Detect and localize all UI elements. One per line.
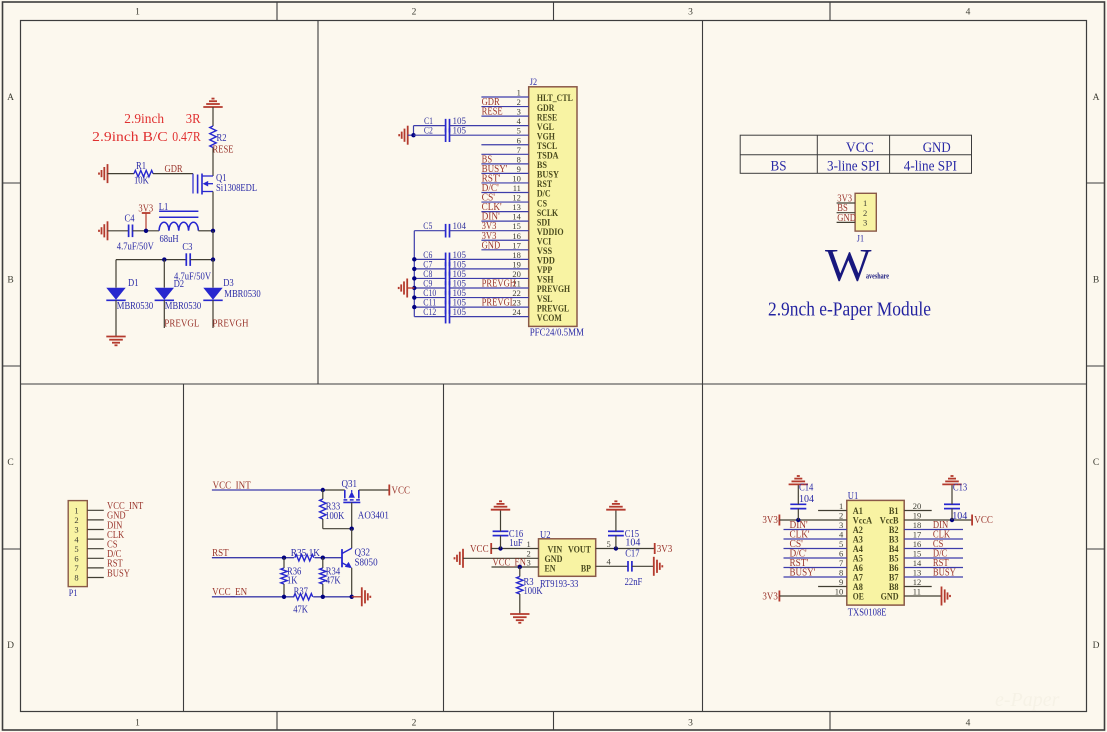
svg-text:C: C bbox=[1093, 458, 1099, 468]
wire J2 pin 11 stub bbox=[481, 192, 528, 194]
wire J2 pin 12 stub bbox=[481, 201, 528, 203]
label C12 bbox=[423, 307, 436, 317]
svg-text:12: 12 bbox=[512, 193, 521, 203]
svg-text:1K: 1K bbox=[287, 576, 298, 587]
value 4.7uF/50V (C3) bbox=[174, 271, 212, 282]
net label BUSY at U1 bbox=[933, 568, 956, 579]
ground (earth, up) above C16 bbox=[491, 501, 510, 509]
wire C17 to ground bbox=[632, 565, 654, 567]
svg-text:4-line SPI: 4-line SPI bbox=[904, 158, 957, 174]
diode D1 bbox=[106, 288, 125, 301]
value 22nF bbox=[625, 577, 643, 588]
svg-text:OE: OE bbox=[853, 592, 864, 603]
wire bus to capacitor C7 bbox=[414, 268, 445, 270]
ground (earth, up) above C15 bbox=[606, 501, 625, 509]
wire C11 to J2 pin 23 bbox=[450, 306, 529, 308]
wire J2 pin 9 stub bbox=[481, 172, 528, 174]
wire C13 to node bbox=[951, 509, 953, 520]
net label RST bbox=[212, 548, 229, 559]
P1 pin numbers 1-8 bbox=[74, 506, 79, 583]
value AO3401 bbox=[358, 511, 389, 522]
power port VCC (Q31) bbox=[389, 485, 410, 497]
wire D1 to ground bbox=[115, 300, 117, 336]
wire ground to R2 bbox=[212, 107, 214, 126]
label P1 bbox=[69, 589, 78, 599]
svg-text:12: 12 bbox=[913, 577, 922, 587]
wire to diode D1 bbox=[115, 260, 117, 288]
net label 3V3 at J1 bbox=[837, 194, 852, 205]
wire J2 pin 17 stub bbox=[481, 249, 528, 251]
wire cap-bank bus vertical bbox=[413, 231, 415, 317]
J1 pin numbers 1-3 bbox=[863, 198, 867, 227]
wire P1 pin 5 stub bbox=[87, 548, 104, 550]
svg-text:1: 1 bbox=[526, 539, 530, 549]
net label BS at J1 bbox=[837, 203, 848, 214]
label C11 bbox=[423, 298, 436, 308]
capacitor C9 bbox=[446, 281, 450, 295]
label R33 bbox=[326, 501, 340, 512]
diode D3 bbox=[203, 288, 222, 301]
wire P1 pin 2 stub bbox=[87, 519, 104, 521]
svg-text:3V3: 3V3 bbox=[657, 544, 673, 555]
net label D/C' at U1 bbox=[790, 549, 807, 560]
label D2 bbox=[174, 279, 185, 290]
wire C8 to J2 pin 20 bbox=[450, 277, 529, 279]
wire Q31 to VCC port bbox=[359, 489, 390, 491]
ground (earth, right) at U1 GND bbox=[942, 587, 951, 606]
junction node emitter/ground bbox=[350, 595, 354, 599]
label J1 bbox=[857, 234, 864, 244]
label R2 bbox=[217, 133, 227, 144]
svg-text:3R: 3R bbox=[186, 112, 201, 127]
value 104 (C5) bbox=[453, 221, 467, 231]
resistor R37 bbox=[294, 594, 313, 600]
svg-text:104: 104 bbox=[952, 511, 967, 522]
resistor R36 bbox=[281, 558, 287, 597]
wire RST bbox=[212, 557, 294, 559]
label Q1 bbox=[216, 173, 227, 184]
svg-text:GND: GND bbox=[923, 140, 951, 156]
wire J2 pin 3 stub bbox=[481, 115, 528, 117]
svg-text:D: D bbox=[1093, 641, 1100, 651]
net label RST' at J2 pin 10 bbox=[482, 173, 501, 184]
wire P1 pin 6 stub bbox=[87, 557, 104, 559]
Waveshare logo W bbox=[825, 240, 872, 292]
junction node C2 bbox=[411, 133, 415, 137]
power port 3V3 (top-left) bbox=[138, 203, 153, 231]
svg-text:105: 105 bbox=[453, 259, 467, 269]
ground (earth, left) at cap bank bbox=[399, 279, 408, 298]
svg-text:VCC: VCC bbox=[470, 544, 489, 555]
svg-text:VCC: VCC bbox=[392, 486, 411, 497]
wire R35 to Q32 base bbox=[315, 557, 343, 559]
junction node RST/R36 bbox=[282, 556, 286, 560]
net label D/C at P1 bbox=[107, 549, 122, 560]
junction node C14 bbox=[796, 518, 800, 522]
junction node C15 bbox=[614, 546, 618, 550]
svg-text:2: 2 bbox=[412, 719, 417, 729]
net label PREVGH bbox=[212, 319, 248, 330]
wire U2 VOUT pin 5 to 3V3 bbox=[596, 548, 655, 550]
wire R37 to emitter node bbox=[313, 596, 352, 598]
svg-text:PFC24/0.5MM: PFC24/0.5MM bbox=[530, 328, 584, 339]
wire C4 to L1 bbox=[133, 230, 160, 232]
wire U1 pin 13 (BUSY) bbox=[904, 576, 963, 578]
svg-text:3: 3 bbox=[863, 218, 867, 228]
wire rail down to C3 node bbox=[212, 231, 214, 260]
svg-text:18: 18 bbox=[913, 520, 922, 530]
label R36 bbox=[287, 566, 301, 577]
svg-text:e-Paper: e-Paper bbox=[995, 689, 1060, 711]
ground (earth, left) at R1 bbox=[99, 164, 108, 183]
wire 3V3 to U1 OE pin 10 bbox=[779, 595, 846, 597]
label C14 bbox=[799, 483, 813, 494]
wire bus to capacitor C8 bbox=[414, 277, 445, 279]
wire bus to capacitor C10 bbox=[414, 297, 445, 299]
net label GDR at J2 pin 2 bbox=[482, 97, 500, 108]
junction node bus pin 21 bbox=[412, 286, 416, 290]
svg-text:P1: P1 bbox=[69, 589, 78, 599]
svg-text:24: 24 bbox=[512, 307, 521, 317]
svg-text:D: D bbox=[7, 641, 14, 651]
wire L1 to main rail bbox=[198, 230, 213, 232]
wire D2 to net PREVGL bbox=[163, 300, 165, 328]
wire Q32 emitter down bbox=[351, 568, 353, 597]
ground (earth, up) above C14 bbox=[789, 476, 808, 484]
net label PREVGH at J2 pin 21 bbox=[482, 279, 516, 290]
svg-text:4: 4 bbox=[966, 8, 971, 18]
svg-text:8: 8 bbox=[74, 573, 78, 583]
wire VCC_INT to Q31 bbox=[323, 489, 345, 491]
value 105 (C8) bbox=[453, 269, 467, 279]
net label BUSY at P1 bbox=[107, 568, 130, 579]
svg-text:7: 7 bbox=[839, 558, 843, 568]
svg-text:6: 6 bbox=[517, 135, 521, 145]
value 100K (R3) bbox=[524, 586, 544, 597]
label C9 bbox=[423, 279, 432, 289]
svg-text:17: 17 bbox=[913, 530, 922, 540]
svg-text:105: 105 bbox=[453, 298, 467, 308]
svg-text:5: 5 bbox=[517, 126, 521, 136]
svg-text:L1: L1 bbox=[159, 202, 169, 213]
wire U1 pin 7 (RST') bbox=[784, 567, 847, 569]
svg-text:13: 13 bbox=[512, 202, 521, 212]
connector J2 body bbox=[529, 87, 577, 327]
junction node C16 bbox=[498, 546, 502, 550]
wire U2 BP pin 4 to C17 bbox=[596, 565, 628, 567]
U1 pin numbers bbox=[835, 501, 922, 597]
svg-text:47K: 47K bbox=[326, 576, 341, 587]
svg-text:11: 11 bbox=[513, 183, 521, 193]
wire J2 pin 10 stub bbox=[481, 182, 528, 184]
power port 3V3 (U1 OE) bbox=[762, 591, 779, 603]
svg-text:C5: C5 bbox=[423, 221, 432, 231]
value 1K (R36) bbox=[287, 576, 298, 587]
svg-text:aveshare: aveshare bbox=[866, 271, 889, 281]
net label CLK at U1 bbox=[933, 530, 951, 541]
wire to capacitor C1 bbox=[414, 125, 446, 127]
wire J2 pin 13 stub bbox=[481, 211, 528, 213]
wire to U2 EN pin 3 bbox=[492, 566, 539, 568]
wire U1 pin 5 (CS') bbox=[784, 548, 847, 550]
net label VCC_INT bbox=[213, 480, 252, 491]
wire P1 pin 7 stub bbox=[87, 567, 104, 569]
svg-text:2: 2 bbox=[863, 208, 867, 218]
svg-text:C14: C14 bbox=[799, 483, 813, 494]
ground (earth, left) at U2 GND bbox=[455, 549, 464, 568]
label R37 bbox=[294, 586, 308, 597]
ground (earth, down) below R3 bbox=[510, 614, 529, 623]
wire J2 pin 6 stub bbox=[481, 144, 528, 146]
wire R33 bottom to gate node bbox=[323, 528, 352, 530]
svg-text:105: 105 bbox=[453, 307, 467, 317]
svg-text:2: 2 bbox=[517, 97, 521, 107]
junction node D3 top bbox=[211, 257, 215, 261]
svg-text:GND: GND bbox=[482, 240, 501, 251]
wire R1 to Q1 gate, net GDR bbox=[153, 173, 193, 175]
svg-text:1uF: 1uF bbox=[509, 538, 523, 549]
label U1 bbox=[848, 491, 859, 502]
svg-text:100K: 100K bbox=[325, 511, 345, 522]
svg-text:C11: C11 bbox=[423, 298, 436, 308]
svg-text:3: 3 bbox=[526, 558, 530, 568]
svg-text:104: 104 bbox=[799, 494, 814, 505]
net label BUSY' at J2 pin 9 bbox=[482, 164, 508, 175]
svg-text:D1: D1 bbox=[128, 278, 139, 289]
wire D3 to net PREVGH bbox=[212, 300, 214, 328]
resistor R34 bbox=[320, 558, 326, 597]
svg-text:BS: BS bbox=[771, 158, 787, 174]
svg-text:1: 1 bbox=[135, 8, 140, 18]
ground (earth, up) above C13 bbox=[942, 476, 961, 484]
svg-text:U1: U1 bbox=[848, 491, 859, 502]
svg-text:C12: C12 bbox=[423, 307, 436, 317]
net label RST at U1 bbox=[933, 558, 949, 569]
svg-text:PREVGL: PREVGL bbox=[164, 319, 199, 330]
net label PREVGL bbox=[164, 319, 199, 330]
svg-text:15: 15 bbox=[913, 549, 922, 559]
label Q32 bbox=[355, 548, 371, 559]
junction node R33 top bbox=[321, 488, 325, 492]
wire U1 pin 17 (CLK) bbox=[904, 538, 963, 540]
net label DIN at U1 bbox=[933, 520, 948, 531]
transistor Q1 N-MOSFET bbox=[193, 174, 213, 195]
net label DIN' at U1 bbox=[790, 520, 808, 531]
svg-text:2: 2 bbox=[74, 515, 78, 525]
power port 3V3 (U2 output) bbox=[655, 543, 673, 555]
wire C5 to J2 pin 15 bbox=[450, 230, 529, 232]
wire U1 pin 14 (RST) bbox=[904, 567, 963, 569]
wire C16 to ground bbox=[500, 510, 502, 532]
wire J2 pin 8 stub bbox=[481, 163, 528, 165]
svg-text:2.9inch B/C: 2.9inch B/C bbox=[92, 130, 168, 145]
label R35 1K bbox=[291, 548, 321, 559]
wire gate node to Q32 collector bbox=[351, 529, 353, 549]
wire VCC to U2 VIN pin 1 bbox=[491, 548, 538, 550]
svg-text:19: 19 bbox=[512, 259, 521, 269]
junction node bus pin 20 bbox=[412, 276, 416, 280]
value 47K (R37) bbox=[293, 605, 308, 616]
svg-text:4.7uF/50V: 4.7uF/50V bbox=[117, 242, 155, 253]
svg-text:TXS0108E: TXS0108E bbox=[848, 607, 887, 618]
svg-text:4: 4 bbox=[966, 719, 971, 729]
junction node VCC_EN/R36 bbox=[282, 595, 286, 599]
svg-text:AO3401: AO3401 bbox=[358, 511, 389, 522]
svg-text:104: 104 bbox=[625, 538, 640, 549]
value 105 (C7) bbox=[453, 259, 467, 269]
label C3 bbox=[182, 242, 192, 253]
wire bus to capacitor C6 bbox=[414, 258, 445, 260]
wire U1 pin 12 stub bbox=[904, 586, 932, 588]
label C15 bbox=[625, 529, 639, 540]
svg-text:22nF: 22nF bbox=[625, 577, 643, 588]
svg-text:C10: C10 bbox=[423, 288, 436, 298]
junction node bus pin 23 bbox=[412, 305, 416, 309]
svg-text:20: 20 bbox=[913, 501, 922, 511]
svg-text:10K: 10K bbox=[134, 176, 149, 187]
svg-text:0.47R: 0.47R bbox=[172, 130, 201, 145]
label C16 bbox=[509, 529, 523, 540]
svg-text:PREVGH: PREVGH bbox=[212, 319, 248, 330]
wire J2 pin 7 stub bbox=[481, 153, 528, 155]
svg-text:6: 6 bbox=[74, 554, 78, 564]
svg-text:A: A bbox=[7, 93, 14, 103]
net label CS at P1 bbox=[107, 540, 118, 551]
wire Q31 gate to node bbox=[351, 502, 353, 528]
wire P1 pin 3 stub bbox=[87, 529, 104, 531]
capacitor C16 bbox=[493, 531, 509, 535]
transistor Q32 NPN bbox=[342, 548, 352, 568]
wire C14 to ground bbox=[797, 484, 799, 504]
label C6 bbox=[423, 250, 432, 260]
wire C10 to J2 pin 22 bbox=[450, 297, 529, 299]
value MBR0530 (D3) bbox=[224, 289, 260, 300]
svg-text:MBR0530: MBR0530 bbox=[117, 301, 153, 312]
svg-text:1: 1 bbox=[863, 198, 867, 208]
junction node bus pin 19 bbox=[412, 267, 416, 271]
wire C3 to rail bbox=[190, 259, 213, 261]
ground (earth, right) at C17 bbox=[654, 557, 663, 576]
capacitor C3 bbox=[186, 253, 190, 266]
label L1 bbox=[159, 202, 169, 213]
red wire to ground (Q32) bbox=[352, 596, 362, 598]
net label CS' at J2 pin 12 bbox=[482, 193, 496, 204]
svg-text:3V3: 3V3 bbox=[762, 515, 778, 526]
label D1 bbox=[128, 278, 139, 289]
svg-text:Si1308EDL: Si1308EDL bbox=[216, 183, 257, 194]
svg-text:14: 14 bbox=[913, 558, 922, 568]
value 100K (R33) bbox=[325, 511, 345, 522]
wire J2 pin 2 stub bbox=[481, 106, 528, 108]
svg-text:4: 4 bbox=[517, 116, 522, 126]
svg-text:R1: R1 bbox=[136, 161, 146, 172]
wire U1 pin 6 (D/C') bbox=[784, 557, 847, 559]
value 10K bbox=[134, 176, 149, 187]
svg-text:68uH: 68uH bbox=[160, 234, 179, 245]
net label RESE bbox=[213, 145, 234, 156]
net label GND at J2 pin 17 bbox=[482, 240, 501, 251]
red annotation text 2.9inch B/C 0.47R bbox=[92, 130, 201, 145]
svg-text:7: 7 bbox=[74, 563, 78, 573]
label Q31 bbox=[342, 479, 358, 490]
wire U1 VccB pin 19 to VCC bbox=[904, 519, 972, 521]
value 105 (C6) bbox=[453, 250, 467, 260]
svg-text:3: 3 bbox=[517, 107, 521, 117]
wire 3V3 to U1 VccA pin 2 bbox=[779, 519, 846, 521]
net label CS' at U1 bbox=[790, 539, 804, 550]
junction node bus pin 22 bbox=[412, 295, 416, 299]
capacitor C10 bbox=[446, 291, 450, 305]
net label BS at J2 pin 8 bbox=[482, 154, 493, 165]
inductor L1 bbox=[159, 211, 198, 231]
label U2 bbox=[540, 530, 551, 541]
svg-text:16: 16 bbox=[512, 231, 521, 241]
svg-text:3: 3 bbox=[74, 525, 78, 535]
wire J2 pin 14 stub bbox=[481, 220, 528, 222]
wire Q1 source to L1 node bbox=[212, 192, 214, 231]
junction node R3 top bbox=[518, 565, 522, 569]
power port VCC (U1 VccB) bbox=[972, 515, 993, 527]
wire bus to capacitor C9 bbox=[414, 287, 445, 289]
svg-text:R2: R2 bbox=[217, 133, 227, 144]
svg-text:11: 11 bbox=[913, 587, 921, 597]
svg-text:105: 105 bbox=[453, 250, 467, 260]
capacitor C17 bbox=[628, 561, 632, 572]
svg-text:3-line SPI: 3-line SPI bbox=[827, 158, 880, 174]
value 104 (C13) bbox=[952, 511, 967, 522]
wire rail to diode D3 bbox=[212, 260, 214, 288]
capacitor C12 bbox=[446, 310, 450, 324]
svg-text:13: 13 bbox=[913, 568, 922, 578]
table text 4-line SPI bbox=[904, 158, 957, 174]
svg-text:3: 3 bbox=[688, 8, 693, 18]
ground (earth, right) at Q32 emitter bbox=[362, 587, 371, 606]
table text GND bbox=[923, 140, 951, 156]
title 2.9nch e-Paper Module bbox=[768, 299, 931, 321]
svg-text:GDR: GDR bbox=[165, 164, 183, 175]
svg-text:10: 10 bbox=[835, 587, 844, 597]
svg-text:1: 1 bbox=[135, 719, 140, 729]
J2 pin numbers 1-24 bbox=[512, 88, 521, 318]
label R34 bbox=[326, 566, 340, 577]
svg-text:VCOM: VCOM bbox=[537, 313, 562, 324]
svg-text:VOUT: VOUT bbox=[568, 544, 592, 555]
wire C13 to ground bbox=[951, 484, 953, 504]
svg-text:17: 17 bbox=[512, 240, 521, 250]
wire VCC_EN bbox=[212, 596, 294, 598]
svg-text:C9: C9 bbox=[423, 279, 432, 289]
svg-text:8: 8 bbox=[517, 154, 521, 164]
net label VCC_INT at P1 bbox=[107, 501, 143, 512]
svg-text:4: 4 bbox=[839, 530, 844, 540]
resistor R35 bbox=[295, 555, 314, 561]
svg-text:BUSY': BUSY' bbox=[790, 568, 816, 579]
Waveshare logo text aveshare bbox=[866, 271, 889, 281]
wire C1 to J2 pin 4 bbox=[450, 125, 529, 127]
value 105 (C1) bbox=[453, 116, 467, 126]
svg-text:105: 105 bbox=[453, 288, 467, 298]
wire ground to C4 bbox=[108, 230, 129, 232]
pin number 4 (U2) bbox=[607, 556, 612, 566]
net label GND at J1 bbox=[837, 213, 856, 224]
wire VCC_INT bbox=[212, 489, 323, 491]
red wire ground to bus bbox=[407, 287, 414, 289]
svg-text:5: 5 bbox=[839, 539, 843, 549]
wire U1 pin 3 (DIN') bbox=[784, 529, 847, 531]
svg-text:105: 105 bbox=[453, 279, 467, 289]
label C8 bbox=[423, 269, 432, 279]
svg-text:19: 19 bbox=[913, 511, 922, 521]
